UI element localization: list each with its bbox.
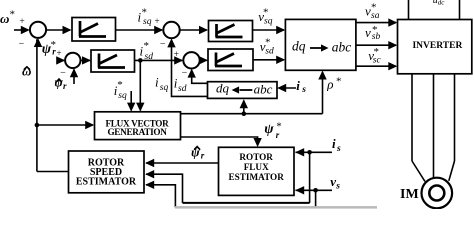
svg-text:ψ: ψ	[54, 75, 63, 90]
svg-text:ESTIMATOR: ESTIMATOR	[76, 177, 137, 188]
svg-text:v: v	[365, 25, 371, 40]
svg-text:+: +	[19, 17, 24, 27]
svg-text:r: r	[201, 151, 205, 161]
svg-text:*: *	[263, 7, 269, 19]
svg-text:FLUX: FLUX	[244, 162, 269, 172]
svg-text:IM: IM	[400, 187, 419, 202]
svg-text:i: i	[296, 78, 300, 93]
svg-text:*: *	[10, 9, 16, 21]
svg-text:s: s	[335, 182, 340, 192]
svg-text:sd: sd	[145, 52, 154, 62]
svg-text:sd: sd	[178, 84, 187, 94]
svg-text:−: −	[182, 68, 188, 79]
svg-text:GENERATION: GENERATION	[107, 127, 167, 137]
svg-text:ρ: ρ	[326, 77, 333, 92]
svg-text:−: −	[19, 38, 25, 49]
svg-text:abc: abc	[332, 40, 352, 55]
svg-text:r: r	[63, 81, 67, 91]
svg-text:s: s	[336, 144, 341, 154]
svg-text:*: *	[117, 79, 123, 91]
svg-text:+: +	[154, 17, 159, 27]
svg-text:−: −	[160, 39, 166, 50]
svg-text:ROTOR: ROTOR	[239, 152, 273, 162]
svg-text:dq: dq	[292, 39, 306, 54]
svg-text:dc: dc	[438, 0, 446, 6]
svg-text:s: s	[301, 85, 306, 95]
svg-text:*: *	[276, 121, 282, 133]
svg-text:dq: dq	[216, 80, 230, 95]
svg-text:*: *	[371, 2, 377, 14]
svg-text:sq: sq	[160, 83, 169, 93]
svg-text:INVERTER: INVERTER	[412, 41, 462, 51]
svg-text:ω: ω	[22, 64, 31, 79]
svg-text:abc: abc	[254, 81, 273, 96]
svg-text:*: *	[144, 40, 150, 52]
svg-text:+: +	[174, 50, 179, 60]
svg-text:sq: sq	[118, 91, 127, 101]
svg-text:*: *	[265, 37, 271, 49]
svg-text:*: *	[374, 46, 380, 58]
svg-text:*: *	[142, 7, 148, 19]
svg-text:i: i	[155, 75, 159, 90]
svg-text:sq: sq	[143, 17, 152, 27]
svg-text:*: *	[336, 75, 342, 87]
svg-text:ω: ω	[0, 11, 9, 26]
svg-text:*: *	[372, 24, 378, 36]
svg-text:*: *	[51, 39, 57, 51]
svg-text:ESTIMATOR: ESTIMATOR	[229, 172, 285, 182]
svg-text:ψ: ψ	[191, 145, 200, 160]
svg-text:+: +	[56, 48, 61, 58]
svg-text:i: i	[332, 136, 336, 151]
svg-text:ψ: ψ	[264, 122, 274, 137]
